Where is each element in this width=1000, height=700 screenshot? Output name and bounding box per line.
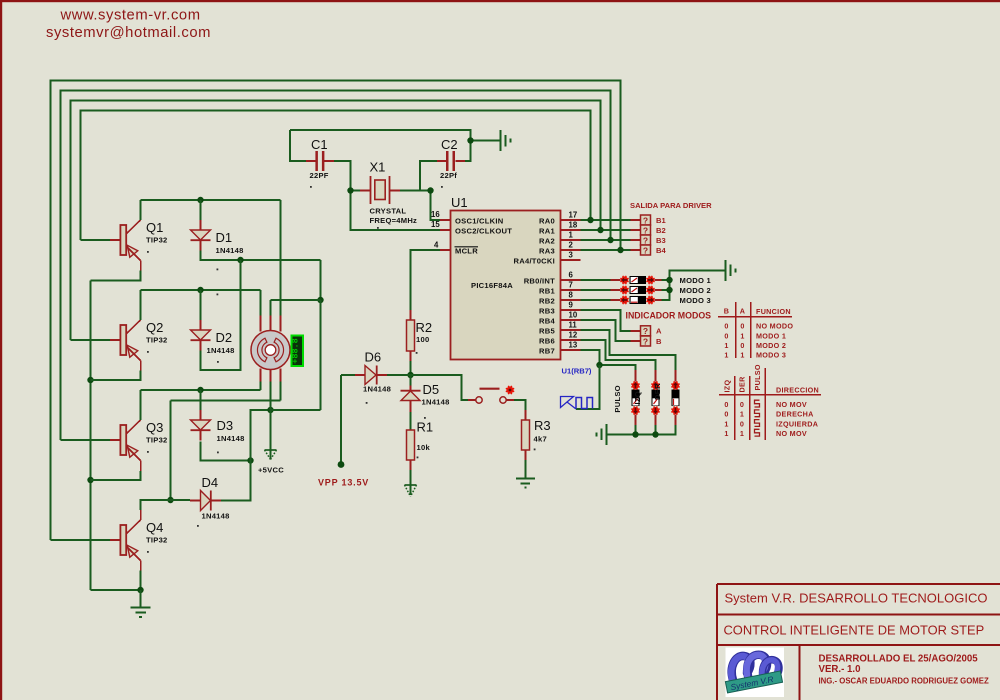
capacitor C1 22PF [306, 137, 334, 188]
terminal B2 [631, 225, 666, 235]
wire RB7 to PULSO switch [581, 350, 636, 370]
node ground junction [137, 587, 143, 593]
svg-text:1: 1 [740, 429, 744, 438]
svg-text:TIP32: TIP32 [146, 436, 168, 445]
wire Q2 collector riser [126, 320, 141, 334]
svg-text:B3: B3 [656, 236, 666, 245]
wire VPP node to button [411, 375, 469, 400]
svg-text:RB1: RB1 [539, 286, 555, 295]
title block frame [717, 584, 1000, 700]
wire R2 to VPP node [410, 361, 412, 375]
diode D4 1N4148 (horizontal) [190, 475, 230, 527]
svg-text:B: B [724, 307, 730, 316]
svg-text:?: ? [643, 215, 648, 225]
svg-text:?: ? [643, 245, 648, 255]
svg-text:IZQ: IZQ [633, 391, 642, 404]
resistor R2 100 [407, 310, 433, 361]
switch SW-MODO3 [611, 296, 662, 304]
svg-text:A: A [656, 327, 662, 336]
svg-text:1N4148: 1N4148 [207, 346, 235, 355]
wire switch commons to ground [607, 425, 676, 435]
svg-text:7: 7 [569, 281, 573, 290]
wire C1 top rail to ground [290, 130, 471, 141]
wire motor pin1 riser [280, 200, 282, 316]
svg-text:X1: X1 [370, 160, 386, 175]
wire Q1 base stub [81, 239, 111, 241]
svg-text:DER: DER [653, 383, 662, 400]
wire +5VCC stem [270, 410, 272, 450]
wire phase C rail [141, 389, 261, 391]
svg-text:1N4148: 1N4148 [422, 398, 450, 407]
wire Q2 base stub [71, 339, 111, 341]
ground symbol (switches, pointing left) [597, 424, 607, 445]
terminal B [631, 336, 663, 346]
pin RB5 11 [539, 321, 580, 336]
pin OSC1/CLKIN 16 [431, 210, 504, 225]
pin RB2 8 [539, 291, 580, 306]
node VPP junction [407, 372, 413, 378]
diode D2 1N4148 [191, 320, 235, 363]
svg-text:PIC16F84A: PIC16F84A [471, 281, 513, 290]
svg-text:100: 100 [416, 335, 429, 344]
table DIRECCION header [719, 364, 821, 440]
node Q3 emitter junction [87, 477, 93, 483]
svg-text:DERECHA: DERECHA [776, 410, 814, 419]
svg-text:B4: B4 [656, 246, 666, 255]
svg-text:RB4: RB4 [539, 316, 555, 325]
pin RB7 13 [539, 341, 580, 356]
svg-text:B: B [656, 337, 662, 346]
wire motor pin2 riser [260, 290, 262, 316]
svg-text:CRYSTAL: CRYSTAL [370, 207, 407, 216]
wire Q4 base stub [51, 539, 111, 541]
svg-text:0: 0 [724, 331, 728, 340]
motor stepper (grey) [251, 316, 290, 382]
wire VPP node to D5 [410, 375, 412, 386]
wire emitter bus bottom [91, 589, 141, 591]
node VPP terminal dot [338, 461, 345, 468]
node RA2 junction [607, 237, 613, 243]
switch SW-IZQ (vertical) [651, 370, 659, 425]
svg-text:U1: U1 [451, 195, 468, 210]
svg-text:R2: R2 [416, 320, 433, 335]
svg-text:RA1: RA1 [539, 226, 555, 235]
svg-text:0: 0 [724, 322, 728, 331]
pin RA2 1 [539, 231, 580, 246]
wire C2 left leg [420, 161, 437, 191]
svg-text:1: 1 [724, 351, 728, 360]
wire OSC1 net to U1 [431, 191, 441, 221]
svg-text:Q3: Q3 [146, 420, 163, 435]
wire supply mid vertical [251, 410, 271, 461]
svg-text:Q1: Q1 [146, 220, 163, 235]
node OSC1 junction [427, 187, 433, 193]
wire R3 to ground [525, 460, 527, 479]
svg-text:1: 1 [724, 419, 728, 428]
wire supply right link [271, 300, 321, 410]
svg-text:8: 8 [569, 291, 574, 300]
svg-text:15: 15 [431, 220, 440, 229]
wire phase B top rail [141, 289, 261, 291]
wire net RA3 to Q4 base (outer loop) [51, 81, 621, 541]
svg-text:NO MODO: NO MODO [756, 322, 793, 331]
wire button to R3 [514, 400, 526, 410]
power +5VCC arrow [258, 450, 284, 475]
node RA0 junction [587, 217, 593, 223]
pin RB1 7 [539, 281, 580, 296]
svg-text:1: 1 [740, 351, 744, 360]
node D1-D2 cathode junction [237, 257, 243, 263]
logo System V.R. [725, 648, 784, 698]
svg-text:?: ? [643, 326, 648, 336]
pin RB3 9 [539, 301, 580, 316]
svg-text:0: 0 [740, 341, 744, 350]
wire IZQ bottom stub [655, 425, 657, 435]
svg-text:U1(RB7): U1(RB7) [562, 367, 592, 376]
node MODO1 junction [666, 277, 672, 283]
svg-text:D3: D3 [217, 418, 234, 433]
wire D6 left to VPP rail [341, 374, 355, 376]
svg-text:System V.R. DESARROLLO TECNOLO: System V.R. DESARROLLO TECNOLOGICO [725, 591, 988, 606]
svg-text:B2: B2 [656, 226, 666, 235]
wire Q4 collector riser [126, 520, 141, 534]
wire net RA2 to Q3 base loop [61, 91, 611, 441]
svg-text:CONTROL INTELIGENTE DE MOTOR S: CONTROL INTELIGENTE DE MOTOR STEP [724, 623, 985, 638]
wire RA3 row to terminal B4 [581, 249, 631, 251]
wire net RA1 to Q2 base loop [71, 101, 601, 341]
svg-text:0: 0 [724, 410, 728, 419]
wire RB0 row to switch [581, 279, 611, 281]
svg-text:2: 2 [569, 241, 574, 250]
svg-text:ING.- OSCAR EDUARDO RODRIGUEZ: ING.- OSCAR EDUARDO RODRIGUEZ GOMEZ [819, 677, 989, 686]
transistor Q4 TIP32 [110, 520, 168, 561]
button SW-SPST [468, 386, 514, 403]
wire D5 to R1 [410, 412, 412, 430]
wire RB7 to probe [576, 365, 600, 409]
svg-text:RB3: RB3 [539, 306, 555, 315]
transistor Q3 TIP32 [110, 420, 168, 461]
wire phase D drop [170, 401, 172, 501]
svg-text:0: 0 [724, 400, 728, 409]
svg-text:3: 3 [569, 251, 574, 260]
svg-text:RB0/INT: RB0/INT [524, 276, 555, 285]
wire X1 pins green [351, 190, 431, 192]
svg-text:17: 17 [569, 211, 578, 220]
svg-text:22Pf: 22Pf [440, 171, 457, 180]
svg-text:MODO 1: MODO 1 [756, 331, 786, 340]
svg-text:NO MOV: NO MOV [776, 429, 807, 438]
wire Q4 emitter drop [126, 546, 141, 561]
ground symbol (main, below Q4) [131, 608, 151, 617]
svg-text:11: 11 [569, 321, 578, 330]
table FUNCION header [718, 302, 792, 358]
svg-text:16: 16 [431, 210, 440, 219]
node D2 anode junction [197, 287, 203, 293]
pin RB6 12 [539, 331, 580, 346]
table row NO MOV [724, 400, 807, 409]
svg-text:OSC1/CLKIN: OSC1/CLKIN [455, 216, 504, 225]
wire D4 cathode link [221, 461, 251, 501]
table row NO MODO [724, 322, 793, 331]
svg-text:MODO 1: MODO 1 [680, 276, 712, 285]
switch SW-MODO1 [611, 276, 662, 284]
node supply junction [317, 297, 323, 303]
svg-text:?: ? [643, 225, 648, 235]
svg-text:DIRECCION: DIRECCION [776, 386, 819, 395]
svg-text:NO MOV: NO MOV [776, 400, 807, 409]
svg-text:C1: C1 [311, 137, 328, 152]
svg-text:PULSO: PULSO [613, 385, 622, 412]
node cap ground junction [467, 137, 473, 143]
wire RB6 to IZQ switch [581, 340, 656, 370]
svg-text:+88.8: +88.8 [291, 338, 301, 364]
node MODO2 junction [666, 287, 672, 293]
wire RB3 to terminal A [581, 310, 631, 331]
svg-text:1N4148: 1N4148 [363, 385, 391, 394]
node D3 anode junction [197, 387, 203, 393]
svg-text:INDICADOR MODOS: INDICADOR MODOS [626, 311, 712, 321]
wire Q3 base stub [61, 439, 111, 441]
ground arrow (R1) [405, 484, 417, 486]
svg-text:9: 9 [569, 301, 574, 310]
ground symbol (MODO, pointing right) [726, 260, 736, 281]
wire MCLR to R2 [411, 250, 441, 310]
diode D3 1N4148 [191, 410, 245, 443]
wire R1 to ground arrow [410, 470, 412, 485]
svg-text:TIP32: TIP32 [146, 236, 168, 245]
svg-text:R1: R1 [417, 420, 434, 435]
svg-text:?: ? [643, 235, 648, 245]
node OSC2 junction [347, 187, 353, 193]
node RA3 junction [617, 247, 623, 253]
wire VPP rail vertical [340, 375, 342, 465]
capacitor C2 22PF [437, 137, 465, 188]
svg-text:+5VCC: +5VCC [258, 466, 284, 475]
pin OSC2/CLKOUT 15 [431, 220, 512, 235]
wire D6 to VPP node [387, 374, 411, 376]
wire Q3 collector riser [126, 420, 141, 434]
svg-text:1: 1 [740, 331, 744, 340]
table row MODO 3 [724, 351, 786, 360]
switch SW-MODO2 [611, 286, 662, 294]
wire RB1 row to switch [581, 289, 611, 291]
wire RA0 row to terminal B1 [581, 219, 631, 221]
svg-text:DESARROLLADO EL 25/AGO/2005: DESARROLLADO EL 25/AGO/2005 [819, 654, 979, 665]
wire supply link right [320, 260, 322, 300]
svg-text:D6: D6 [365, 350, 382, 365]
pin RB4 10 [539, 311, 580, 326]
svg-text:MODO 3: MODO 3 [756, 351, 786, 360]
svg-text:MODO 2: MODO 2 [756, 341, 786, 350]
svg-text:FUNCION: FUNCION [756, 307, 791, 316]
pin RA0 17 [539, 211, 580, 226]
svg-text:RB7: RB7 [539, 346, 555, 355]
svg-text:0: 0 [740, 322, 744, 331]
svg-text:?: ? [643, 336, 648, 346]
svg-text:D4: D4 [202, 475, 219, 490]
svg-text:MCLR: MCLR [455, 246, 478, 255]
transistor Q1 TIP32 [110, 220, 168, 261]
diode D6 1N4148 [355, 350, 391, 404]
pin RA4/T0CKI 3 [514, 251, 581, 266]
svg-text:RA4/T0CKI: RA4/T0CKI [514, 256, 556, 265]
pin RB0/INT 6 [524, 271, 581, 286]
node Q2 emitter junction [87, 377, 93, 383]
op chip U1 PIC16F84A body [451, 195, 561, 360]
wire D3 cathode link [201, 442, 251, 461]
svg-text:D2: D2 [216, 330, 233, 345]
wire RA1 row to terminal B2 [581, 229, 631, 231]
wire phase A top rail [141, 199, 281, 201]
svg-text:VER.- 1.0: VER.- 1.0 [819, 664, 861, 675]
label title info [819, 654, 989, 686]
svg-text:RA2: RA2 [539, 236, 555, 245]
svg-text:R3: R3 [534, 418, 551, 433]
probe pulse icon (blue) [561, 397, 593, 410]
wire RB2 row to switch [581, 299, 611, 301]
wire OSC2 net to U1 [351, 191, 441, 231]
resistor R1 10k [407, 420, 434, 471]
table row NO MOV [724, 429, 807, 438]
svg-text:RB6: RB6 [539, 336, 555, 345]
svg-text:1N4148: 1N4148 [202, 512, 230, 521]
wire RB5 to DER switch [581, 330, 676, 370]
resistor R3 4k7 [522, 410, 551, 460]
wire D2 anode stub [200, 290, 202, 320]
svg-text:1: 1 [740, 410, 744, 419]
wire C2 right to ground rail [465, 141, 501, 162]
wire RB4 to terminal B [581, 320, 631, 341]
diode D1 1N4148 [191, 220, 244, 255]
wire motor common pin drop [270, 382, 272, 411]
svg-text:4k7: 4k7 [534, 435, 547, 444]
wire motor pin4 drop [260, 382, 262, 391]
wire D2 cathode link [201, 260, 241, 370]
svg-text:C2: C2 [441, 137, 458, 152]
wire phase D rail [171, 382, 281, 401]
svg-text:0: 0 [740, 419, 744, 428]
svg-text:MODO 2: MODO 2 [680, 286, 711, 295]
svg-text:VPP 13.5V: VPP 13.5V [318, 478, 369, 488]
wire D1 anode stub [200, 200, 202, 220]
svg-text:B1: B1 [656, 216, 666, 225]
svg-text:www.system-vr.com: www.system-vr.com [60, 8, 201, 24]
table row DERECHA [724, 410, 813, 419]
table row IZQUIERDA [724, 419, 818, 428]
svg-text:systemvr@hotmail.com: systemvr@hotmail.com [46, 25, 211, 41]
svg-text:IZQ: IZQ [723, 380, 732, 393]
svg-text:RA0: RA0 [539, 216, 555, 225]
wire Q3 emitter drop [126, 446, 141, 461]
table row MODO 2 [724, 341, 786, 350]
terminal B1 [631, 215, 667, 225]
wire RA2 row to terminal B3 [581, 239, 631, 241]
svg-text:6: 6 [569, 271, 574, 280]
svg-text:SALIDA PARA DRIVER: SALIDA PARA DRIVER [630, 201, 712, 210]
node IZQ-gnd junction [652, 431, 658, 437]
wire emitter bus vertical [90, 281, 92, 591]
wire net RA0 to Q1 base loop [81, 111, 591, 241]
svg-text:IZQUIERDA: IZQUIERDA [776, 419, 818, 428]
node RA1 junction [597, 227, 603, 233]
node D4 anode junction [167, 497, 173, 503]
svg-text:1N4148: 1N4148 [216, 246, 244, 255]
node PULSO-gnd junction [632, 431, 638, 437]
wire D3 anode stub [200, 390, 202, 410]
svg-text:10k: 10k [417, 443, 431, 452]
svg-text:13: 13 [569, 341, 578, 350]
terminal A [631, 326, 663, 336]
svg-text:1: 1 [569, 231, 574, 240]
diode D5 1N4148 [401, 382, 450, 419]
terminal B3 [631, 235, 666, 245]
wire D1 cathode row [201, 251, 321, 261]
svg-text:OSC2/CLKOUT: OSC2/CLKOUT [455, 226, 512, 235]
switch SW-DER (vertical) [671, 370, 679, 425]
svg-text:PULSO: PULSO [753, 364, 762, 390]
crystal X1 4MHz [360, 160, 417, 229]
ground symbol (R3) [516, 479, 535, 488]
svg-text:TIP32: TIP32 [146, 336, 168, 345]
node motor common junction [267, 407, 273, 413]
wire ground stem [140, 590, 142, 607]
wire PULSO bottom stub [635, 425, 637, 435]
node D1 anode junction [197, 197, 203, 203]
svg-text:DER: DER [738, 376, 747, 393]
pin MCLR 4 with overline [434, 241, 478, 256]
svg-text:RA3: RA3 [539, 246, 555, 255]
svg-text:18: 18 [569, 221, 578, 230]
svg-text:22PF: 22PF [310, 171, 329, 180]
svg-text:1N4148: 1N4148 [217, 434, 245, 443]
wire C1 left leg [290, 130, 306, 161]
wire C1 right to OSC2 node [334, 161, 351, 191]
svg-text:0: 0 [740, 400, 744, 409]
svg-text:D1: D1 [216, 230, 233, 245]
svg-text:Q4: Q4 [146, 520, 163, 535]
pin RA3 2 [539, 241, 580, 256]
wire motor pin3 riser [271, 300, 321, 316]
wire Q1 collector riser [126, 220, 141, 234]
ground symbol (caps, pointing right) [501, 130, 511, 151]
svg-text:1: 1 [724, 429, 728, 438]
transistor Q2 TIP32 [110, 320, 168, 361]
wire Q1 emitter drop [126, 246, 141, 261]
motor angle display [291, 336, 303, 367]
node RB7 junction [596, 362, 602, 368]
pin RA1 18 [539, 221, 580, 236]
wire Q2 emitter drop [126, 346, 141, 361]
svg-text:Q2: Q2 [146, 320, 163, 335]
svg-text:1: 1 [724, 341, 728, 350]
table row MODO 1 [724, 331, 786, 340]
svg-text:TIP32: TIP32 [146, 536, 168, 545]
svg-text:A: A [740, 307, 746, 316]
svg-text:12: 12 [569, 331, 578, 340]
terminal B4 [631, 245, 667, 255]
svg-text:D5: D5 [423, 382, 440, 397]
svg-text:RB2: RB2 [539, 296, 555, 305]
svg-text:RB5: RB5 [539, 326, 555, 335]
switch SW-PULSO (vertical) [631, 370, 639, 425]
svg-text:10: 10 [569, 311, 578, 320]
node D3-D4 junction [247, 457, 253, 463]
svg-text:FREQ=4MHz: FREQ=4MHz [370, 216, 418, 225]
svg-text:4: 4 [434, 241, 439, 250]
svg-text:MODO 3: MODO 3 [680, 296, 711, 305]
wire MODO switch common to ground [662, 271, 726, 301]
